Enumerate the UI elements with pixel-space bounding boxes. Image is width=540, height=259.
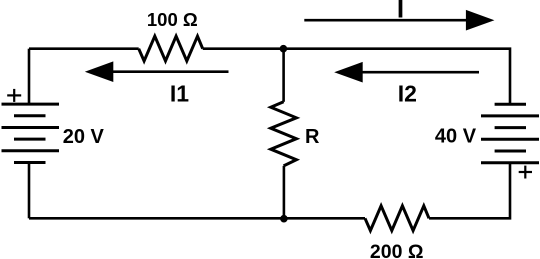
wire left vertical into battery B1: [28, 49, 31, 104]
wire bottom-middle segment node B to 200 ohm: [284, 217, 365, 220]
wire bottom-right segment to right corner: [429, 163, 510, 219]
wire bottom-left horizontal segment: [29, 217, 284, 220]
battery B1 20V plates: [2, 104, 60, 162]
current arrow I2: [334, 62, 479, 83]
wire middle vertical node A to resistor R: [282, 49, 285, 102]
wire middle vertical resistor R to node B: [283, 166, 286, 219]
svg-text:I2: I2: [398, 80, 417, 106]
wire left-bottom vertical from battery B1: [28, 163, 31, 219]
resistor R vertical zigzag: [271, 102, 297, 166]
wire top-middle segment resistor to node A: [203, 47, 284, 50]
current arrow I1: [85, 61, 229, 82]
wire top-left horizontal segment: [29, 47, 139, 50]
svg-text:40 V: 40 V: [435, 126, 477, 148]
svg-text:I1: I1: [170, 80, 189, 106]
node B junction dot: [280, 215, 288, 223]
battery B1 plus terminal symbol: [7, 89, 21, 102]
svg-text:I: I: [397, 0, 404, 23]
battery B2 plus terminal symbol: [519, 166, 532, 179]
node A junction dot: [280, 45, 288, 53]
resistor R1 100 ohm zigzag: [139, 36, 203, 61]
svg-text:R: R: [305, 126, 320, 148]
resistor R3 200 ohm zigzag: [365, 206, 429, 231]
wire top-right segment node A to right corner: [283, 49, 510, 104]
svg-text:200 Ω: 200 Ω: [370, 241, 424, 259]
current arrow I: [304, 10, 494, 31]
svg-text:100 Ω: 100 Ω: [147, 9, 198, 30]
svg-text:20 V: 20 V: [63, 126, 105, 148]
battery B2 40V plates: [481, 104, 539, 163]
